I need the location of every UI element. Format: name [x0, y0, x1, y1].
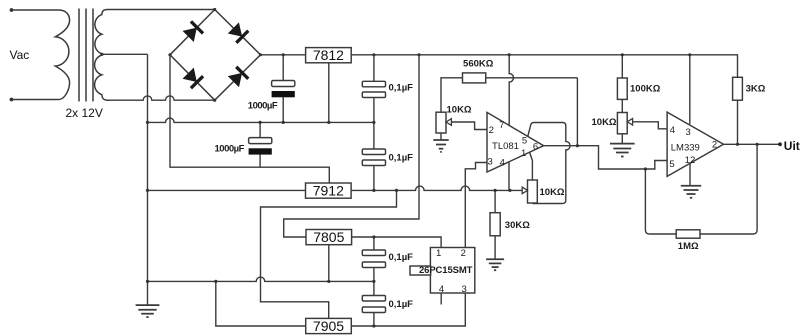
capacitor C2 1000uF plates	[249, 138, 272, 144]
resistor R4 3K	[733, 77, 743, 100]
svg-text:7905: 7905	[313, 318, 344, 334]
ground LM339	[681, 186, 701, 198]
node bridge right corner	[259, 53, 262, 56]
op-amp U1 TL081	[487, 112, 544, 172]
wire decoupling chain upper	[373, 55, 375, 191]
svg-text:30KΩ: 30KΩ	[505, 220, 530, 231]
node bridge left corner	[168, 53, 171, 56]
node input terminal bottom	[10, 98, 14, 102]
svg-text:Vac: Vac	[10, 48, 30, 62]
node 3K output junction	[736, 143, 739, 146]
svg-text:3KΩ: 3KΩ	[746, 84, 766, 95]
svg-text:5: 5	[669, 159, 674, 170]
regulator U4 7805	[306, 230, 352, 245]
potentiometer P2 10K offset	[528, 180, 538, 203]
svg-text:10KΩ: 10KΩ	[592, 117, 617, 128]
capacitor C3 0,1uF	[362, 81, 385, 87]
svg-text:3: 3	[488, 157, 493, 168]
wire lower ground rail with hop	[148, 277, 374, 281]
svg-text:7912: 7912	[313, 182, 344, 198]
resistor R3 100K	[621, 55, 623, 113]
wire bridge minus to 7912 input	[170, 55, 329, 183]
wire -5V rail to sensor pin3	[351, 293, 465, 326]
capacitor C5 0,1uF	[362, 250, 385, 256]
svg-text:Uit: Uit	[784, 139, 800, 153]
svg-text:1: 1	[436, 248, 441, 259]
wire TL081 pin4 stub	[508, 162, 510, 191]
node bridge top corner	[213, 8, 216, 11]
transformer T1 secondary winding upper	[95, 10, 215, 54]
wire -12V branch to 7905 input	[261, 190, 397, 318]
wire offset null loop with hop	[528, 123, 570, 204]
wire TL081 pin3 input	[465, 163, 487, 248]
svg-text:10KΩ: 10KΩ	[447, 104, 472, 115]
capacitor C6 0,1uF	[362, 296, 385, 302]
svg-text:1000µF: 1000µF	[248, 101, 278, 112]
node lower ground junctions	[146, 280, 149, 283]
capacitor C1 1000uF leads	[282, 55, 284, 123]
svg-text:3: 3	[461, 284, 466, 295]
svg-text:1000µF: 1000µF	[215, 143, 245, 154]
resistor R5 1M feedback	[645, 144, 757, 234]
svg-text:7: 7	[499, 120, 504, 131]
potentiometer P3 10K	[617, 113, 627, 134]
potentiometer P1 10K	[436, 112, 446, 133]
node +5 rail junction	[372, 235, 375, 238]
svg-text:560KΩ: 560KΩ	[463, 58, 494, 69]
svg-text:TL081: TL081	[492, 141, 519, 152]
diode D2	[227, 22, 248, 43]
wire pin1 to pot	[530, 153, 533, 180]
wire decoupling chain lower	[373, 237, 375, 326]
svg-text:2: 2	[461, 248, 466, 259]
capacitor C4 0,1uF	[362, 149, 385, 155]
node TL081 output junction	[576, 144, 579, 147]
wire -12V rail right with hops	[351, 186, 522, 190]
svg-text:2x 12V: 2x 12V	[66, 106, 103, 120]
wire TL081 output to LM339	[544, 146, 668, 169]
svg-text:7805: 7805	[313, 229, 344, 245]
wire -12V rail left of 7912	[148, 189, 306, 191]
node +12 rail junctions	[282, 53, 285, 56]
node feedback junction	[756, 143, 759, 146]
svg-text:1: 1	[521, 148, 526, 159]
bridge rectifier diamond	[170, 10, 261, 101]
diode D1	[182, 21, 203, 42]
ground P1	[433, 140, 448, 152]
node bridge bottom corner	[213, 99, 216, 102]
svg-text:0,1µF: 0,1µF	[389, 153, 414, 164]
wire LM339 output	[724, 143, 781, 145]
ground P3	[610, 144, 635, 157]
wire center tap to ground drop	[102, 53, 148, 55]
wire 7805 input feed	[284, 55, 419, 237]
wire 7805 ground stem	[328, 245, 330, 282]
diode D4	[227, 67, 248, 88]
wire +5V rail to sensor pin1	[352, 237, 442, 248]
regulator U3 7912	[306, 183, 352, 198]
node -5 rail junction	[372, 324, 375, 327]
ground main	[136, 305, 160, 317]
resistor R1 560K	[441, 78, 577, 146]
wire sensor pin4 stub	[440, 293, 442, 305]
regulator U2 7812	[306, 48, 352, 63]
svg-text:0,1µF: 0,1µF	[389, 252, 414, 263]
node center tap	[100, 53, 103, 56]
node -12 rail junctions	[146, 189, 149, 192]
node input terminal top	[10, 8, 14, 12]
svg-text:100KΩ: 100KΩ	[630, 83, 661, 94]
transformer T1 core	[79, 9, 93, 102]
wire 7812 ground stem	[328, 63, 330, 123]
ground R2	[486, 259, 504, 270]
svg-text:26PC15SMT: 26PC15SMT	[419, 265, 473, 276]
node mid ground junctions	[146, 121, 149, 124]
comparator U7 LM339	[667, 112, 723, 176]
svg-text:2: 2	[489, 125, 494, 136]
svg-text:10KΩ: 10KΩ	[540, 187, 565, 198]
svg-text:3: 3	[686, 127, 691, 138]
capacitor C2 1000uF leads	[259, 122, 261, 167]
transformer T1 secondary winding lower	[95, 55, 110, 100]
wire secondary bottom to bridge with hops	[110, 96, 215, 100]
resistor R2 30K	[494, 190, 496, 259]
sensor U6 26PC15SMT	[430, 248, 474, 294]
svg-text:LM339: LM339	[671, 143, 700, 154]
svg-text:4: 4	[670, 125, 675, 136]
svg-text:6: 6	[533, 142, 538, 153]
node output terminal	[778, 142, 782, 146]
node 1M to pin5 junction	[644, 167, 647, 170]
regulator U5 7905	[306, 318, 352, 333]
svg-text:4: 4	[500, 157, 505, 168]
wire LM339 pin3 supply	[689, 55, 691, 125]
svg-text:7812: 7812	[313, 47, 344, 63]
svg-text:5: 5	[522, 135, 527, 146]
wire LM339 pin12 ground stub	[689, 163, 691, 185]
wire ground vertical from center tap	[147, 54, 149, 305]
svg-text:0,1µF: 0,1µF	[389, 299, 414, 310]
wire 7905 ground branch	[216, 281, 306, 326]
capacitor C1 1000uF plates	[272, 81, 295, 87]
wire mid ground rail with hop	[148, 118, 374, 122]
wire +12V rail	[261, 55, 738, 78]
wire TL081 pin7 supply with hop	[509, 55, 513, 126]
svg-text:1MΩ: 1MΩ	[678, 241, 699, 252]
transformer T1 primary winding	[12, 10, 70, 100]
svg-text:2: 2	[712, 140, 717, 151]
svg-text:0,1µF: 0,1µF	[389, 82, 414, 93]
diode D3	[182, 67, 203, 88]
